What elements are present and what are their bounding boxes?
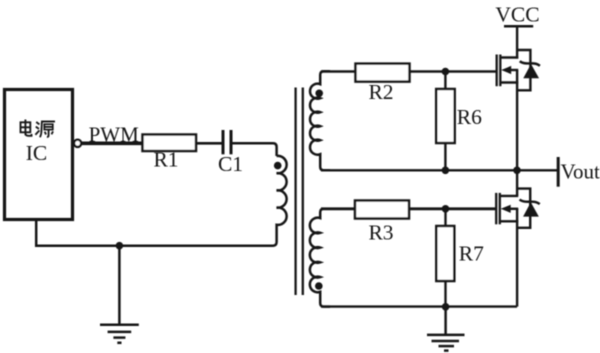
svg-text:VCC: VCC (495, 2, 539, 26)
transformer core (296, 88, 303, 296)
diode D2 body (523, 202, 539, 216)
resistor R7 (436, 226, 454, 281)
resistor R6 (436, 89, 455, 143)
inductor primary winding L1 (273, 156, 287, 246)
svg-text:R7: R7 (459, 241, 484, 265)
inductor secondary winding bottom (310, 209, 330, 307)
gate bar (496, 55, 498, 87)
node junction R3/R7 (442, 205, 450, 213)
channel bar (499, 193, 501, 224)
svg-text:R6: R6 (457, 105, 482, 129)
diode D1 branch (517, 50, 530, 90)
label 电 (dian) glyph (21, 120, 32, 136)
wire VCC to Q1 drain (516, 26, 518, 58)
svg-text:IC: IC (26, 141, 48, 165)
node ground junction (left) (116, 242, 124, 250)
body stub with arrow (508, 69, 518, 71)
wire Vout rail (321, 169, 557, 171)
wire top secondary to MOSFET Q1 gate (321, 70, 497, 73)
wire C1 to transformer primary top (233, 143, 277, 156)
diode D2 branch (517, 189, 530, 228)
resistor R2 (356, 64, 410, 82)
inductor secondary winding top (310, 71, 330, 170)
diode D1 cathode wavy bar (520, 61, 540, 66)
svg-text:R3: R3 (368, 220, 393, 244)
ground symbol (left) (100, 246, 139, 343)
capacitor C1 (223, 130, 231, 154)
svg-text:R2: R2 (368, 80, 393, 104)
wire R6 leads (444, 72, 446, 171)
diode D1 body (523, 64, 539, 78)
diode D2 cathode wavy bar (520, 200, 540, 205)
node top secondary phase dot (315, 90, 323, 98)
svg-text:R1: R1 (153, 148, 178, 172)
wire IC bottom to ground rail (36, 220, 273, 246)
wire Q2 source down to return rail (516, 209, 518, 307)
wire Q2 drain up to Vout node (516, 170, 518, 196)
wire Q1 source down to Vout node (516, 70, 518, 170)
transistor Q1 (MOSFET) (497, 50, 540, 170)
resistor R3 (355, 201, 409, 219)
label 源 (yuan) glyph (35, 122, 55, 138)
svg-text:Vout: Vout (561, 159, 600, 183)
resistor R1 (143, 135, 197, 152)
node junction ground (right) (442, 303, 450, 311)
wire R7 leads (444, 209, 446, 307)
node junction R6 bottom (442, 167, 450, 175)
power IC box U1 (5, 90, 73, 220)
body stub with arrow (508, 208, 519, 210)
source stub (501, 220, 519, 222)
node primary phase dot (274, 162, 282, 170)
transistor Q2 (MOSFET) (496, 170, 540, 306)
node PWM output pin circle (74, 140, 81, 147)
node junction R2/R6 (442, 68, 450, 76)
drain stub (501, 195, 519, 197)
source stub (501, 81, 518, 83)
ground symbol (right) (427, 307, 465, 351)
terminal VCC bar (504, 25, 533, 28)
node junction Q1 source / Q2 drain (513, 167, 521, 175)
wire R1 to C1 (196, 142, 222, 145)
drain stub (501, 56, 518, 58)
wire PWM: pin to R1 (bold) (81, 141, 143, 145)
terminal Vout bar (557, 157, 560, 187)
node bottom secondary phase dot (315, 282, 323, 290)
gate bar (495, 193, 497, 224)
wire bottom secondary to MOSFET Q2 gate (321, 207, 496, 210)
channel bar (499, 55, 501, 87)
wire bottom return rail (321, 305, 517, 307)
svg-text:C1: C1 (218, 152, 243, 176)
